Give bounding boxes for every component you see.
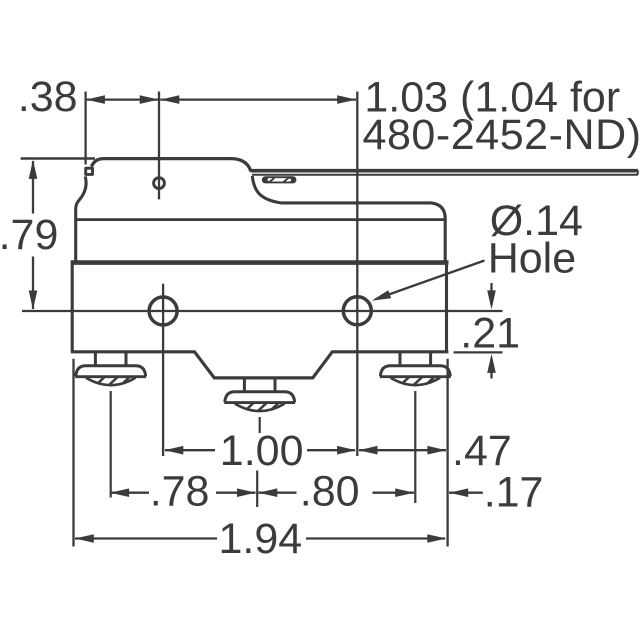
body lower left edge xyxy=(71,264,74,352)
dimension line .79 (vertical) xyxy=(32,161,34,214)
left hole xyxy=(149,297,177,325)
dimension line .78 xyxy=(111,492,149,494)
svg-text:.21: .21 xyxy=(460,310,520,358)
dimension arrow .21 upper (down arrow) xyxy=(490,283,492,305)
dimension line 1.94 xyxy=(75,537,217,539)
extension line: body left edge down to 1.94 xyxy=(72,359,74,547)
left terminal screw xyxy=(75,351,146,389)
svg-text:1.00: 1.00 xyxy=(220,427,304,475)
lever pivot clip slot xyxy=(268,178,291,181)
right hole xyxy=(343,297,371,325)
center terminal screw xyxy=(224,377,295,415)
lever pivot left end (notch) xyxy=(86,168,93,174)
right screw centerline xyxy=(414,391,416,503)
body top outline xyxy=(92,159,251,172)
lever arm right end cap xyxy=(637,169,638,175)
center screw centerline lower segment xyxy=(256,471,258,508)
svg-text:.17: .17 xyxy=(484,469,544,517)
svg-text:.79: .79 xyxy=(0,211,58,259)
leader arrowhead xyxy=(370,290,391,304)
body thick separator line xyxy=(71,260,449,265)
extension/center line: x=159 through small top hole xyxy=(158,92,160,200)
dimension line .38 xyxy=(87,98,158,100)
dimension line .47 xyxy=(359,449,446,451)
lever pivot clip tick left xyxy=(265,178,275,182)
center screw centerline upper segment xyxy=(259,417,261,433)
body lower right edge xyxy=(445,264,448,352)
body left edge (upper S-curve) xyxy=(76,176,86,261)
svg-text:Hole: Hole xyxy=(488,234,576,282)
body bottom edge with recess xyxy=(71,352,449,378)
lever pivot clip body xyxy=(262,176,297,183)
left screw centerline xyxy=(110,391,112,498)
lever arm bottom line xyxy=(252,174,637,176)
center line: left hole vertical xyxy=(162,284,164,456)
leader line to hole xyxy=(376,261,485,300)
extension line: body bottom right (.21 bottom reference) xyxy=(454,351,503,353)
dimension line 1.00 xyxy=(165,449,215,451)
extension line: x=85.6 (.38 left, lever pivot) xyxy=(84,92,86,165)
body inner horizontal line xyxy=(76,218,446,221)
svg-text:.80: .80 xyxy=(300,468,360,516)
svg-text:.78: .78 xyxy=(150,468,210,516)
extension line: body top, left of body (.79 top reference) xyxy=(21,157,95,160)
dimension arrow .17 xyxy=(449,492,483,494)
body right hump outline xyxy=(252,176,445,261)
dimension arrow .21 lower (up arrow) xyxy=(490,358,492,379)
right terminal screw xyxy=(380,351,451,389)
svg-text:1.94: 1.94 xyxy=(219,515,303,563)
lever arm top line xyxy=(251,169,637,173)
svg-text:.38: .38 xyxy=(18,73,78,121)
extension/center line: x=357.3 through right hole down to 1.00 row xyxy=(356,92,358,457)
dimension line 1.03 xyxy=(160,98,356,100)
small top hole xyxy=(154,178,165,189)
lever pivot clip tick right xyxy=(284,178,294,182)
svg-text:480-2452-ND): 480-2452-ND) xyxy=(363,111,640,159)
dimension line .80 xyxy=(258,492,296,494)
center line: horizontal through both holes (.79 and .21 reference) xyxy=(22,310,503,312)
extension line: body right edge down to 1.94 xyxy=(446,359,448,547)
